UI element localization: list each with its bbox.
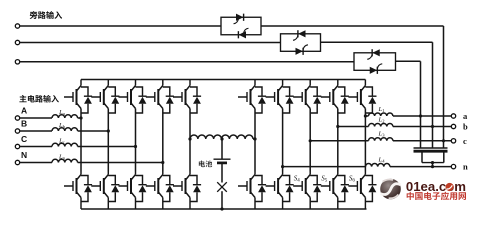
svg-text:B: B (21, 119, 27, 129)
svg-text:Lc: Lc (58, 138, 65, 145)
svg-text:n: n (463, 162, 468, 172)
svg-text:A: A (21, 106, 27, 116)
svg-text:S6: S6 (349, 174, 356, 183)
svg-text:c: c (463, 136, 467, 146)
svg-text:S4: S4 (294, 174, 301, 183)
svg-text:N: N (21, 150, 27, 160)
svg-text:L3: L3 (378, 131, 386, 138)
svg-text:L2: L2 (378, 116, 386, 123)
svg-text:Lb: Lb (58, 122, 66, 129)
svg-text:01ea.com: 01ea.com (406, 179, 466, 194)
svg-text:L1: L1 (378, 106, 386, 113)
svg-text:La: La (58, 109, 65, 116)
svg-text:a: a (463, 111, 468, 121)
svg-text:S5: S5 (321, 174, 328, 183)
svg-text:C: C (21, 134, 27, 144)
svg-text:b: b (463, 122, 468, 132)
svg-text:Ln: Ln (58, 154, 66, 161)
svg-text:L4: L4 (378, 156, 386, 163)
